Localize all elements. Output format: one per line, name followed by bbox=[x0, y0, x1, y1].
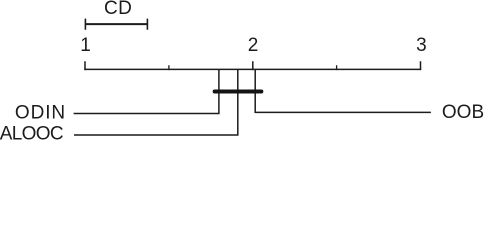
svg-text:2: 2 bbox=[248, 35, 259, 56]
svg-text:CD: CD bbox=[104, 0, 132, 19]
svg-text:ALOOC: ALOOC bbox=[0, 124, 63, 142]
svg-text:1: 1 bbox=[80, 35, 91, 56]
svg-text:ODIN: ODIN bbox=[15, 103, 66, 124]
svg-text:OOB: OOB bbox=[442, 102, 484, 123]
svg-text:3: 3 bbox=[416, 35, 427, 56]
